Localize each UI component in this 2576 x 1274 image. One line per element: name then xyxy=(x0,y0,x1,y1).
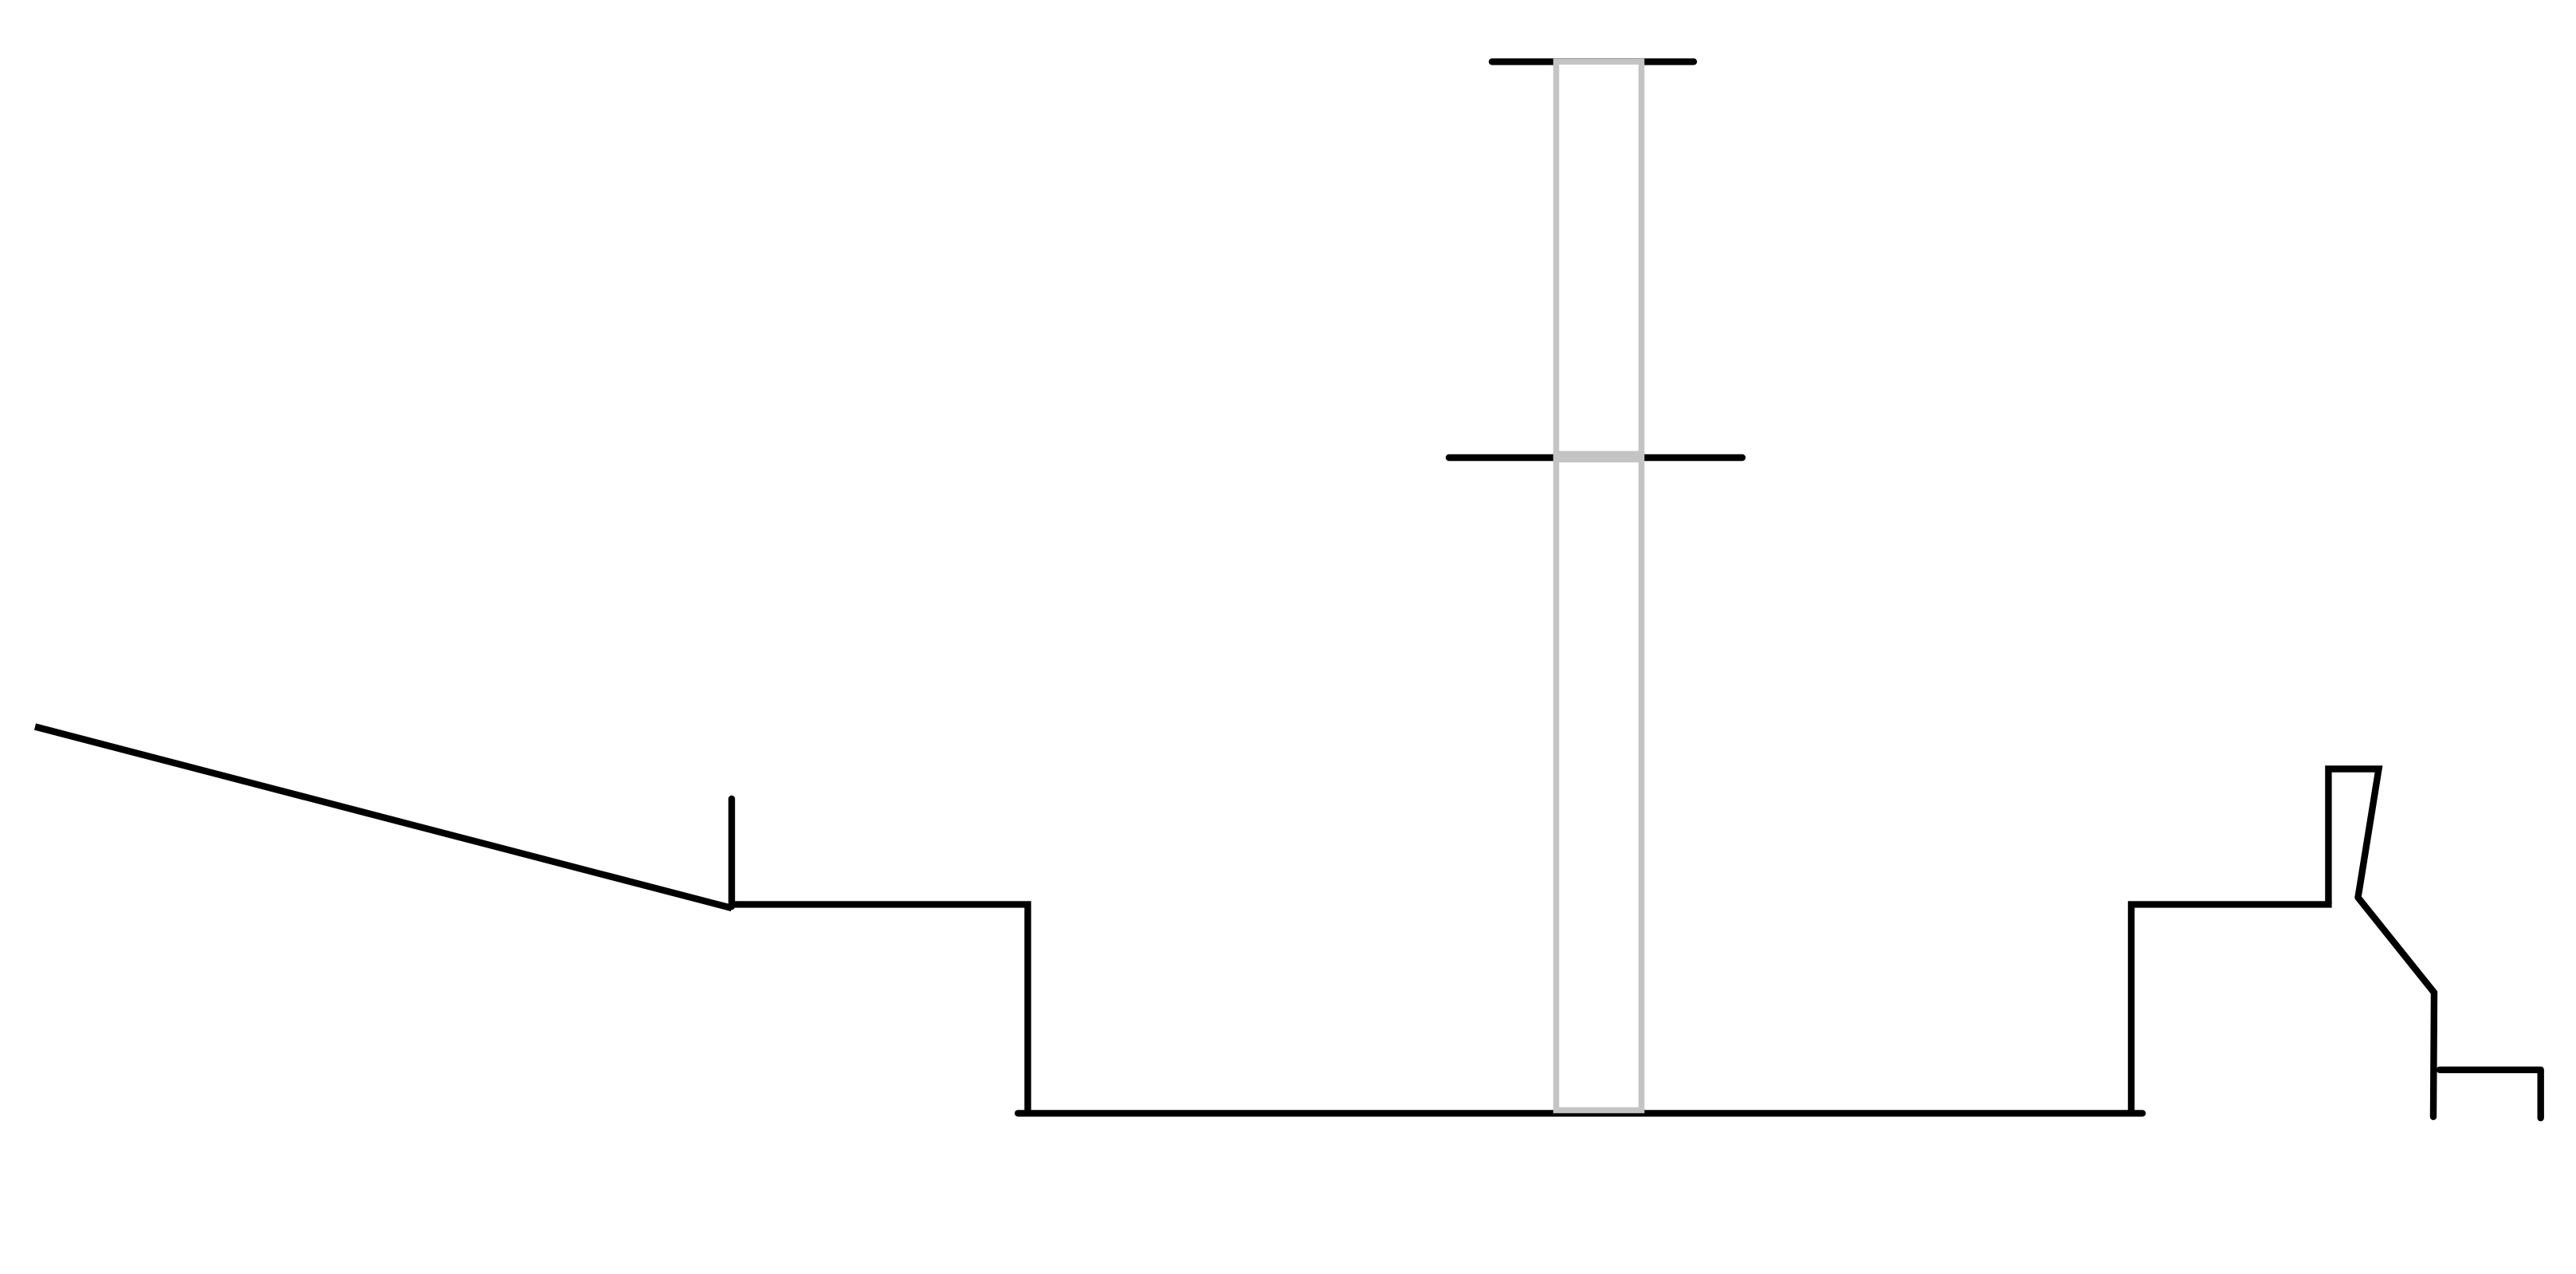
funnel shape xyxy=(2328,769,2378,905)
gray column upper section xyxy=(1557,61,1642,454)
chute diagonal and vertical xyxy=(2358,898,2435,1117)
step-up wall and right plateau xyxy=(2131,904,2332,1113)
left slope line xyxy=(35,727,732,909)
trench bottom line xyxy=(1018,1110,2142,1116)
left vertical tick xyxy=(728,799,735,906)
gray column lower section xyxy=(1557,459,1642,1110)
right step and end wall xyxy=(2440,1070,2541,1118)
middle tick line xyxy=(1449,454,1742,461)
top tick line xyxy=(1492,58,1694,65)
ledge and drop wall xyxy=(728,904,1028,1113)
